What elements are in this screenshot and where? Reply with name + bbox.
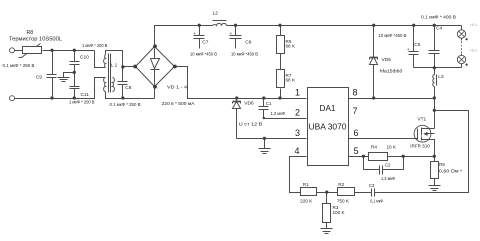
svg-text:4: 4 [294, 146, 299, 156]
svg-text:10 мкФ *450 В: 10 мкФ *450 В [231, 52, 258, 57]
svg-text:IRFR 310: IRFR 310 [410, 144, 430, 149]
svg-text:C7: C7 [202, 40, 208, 46]
svg-text:C11: C11 [81, 92, 90, 98]
svg-text:2: 2 [295, 107, 300, 117]
svg-text:8: 8 [353, 87, 358, 97]
svg-text:C4: C4 [436, 26, 442, 32]
svg-text:U ст 12 В: U ст 12 В [239, 121, 263, 126]
svg-text:220 в * 500 мА: 220 в * 500 мА [162, 101, 196, 106]
svg-text:+: + [407, 48, 410, 53]
svg-text:L3: L3 [438, 74, 444, 80]
svg-text:C1: C1 [266, 101, 272, 106]
svg-text:10 мкФ *450 В: 10 мкФ *450 В [190, 52, 217, 57]
svg-text:C8: C8 [125, 85, 131, 91]
svg-text:VD6: VD6 [244, 101, 254, 107]
svg-text:0,1 мкФ: 0,1 мкФ [370, 198, 383, 203]
svg-text:C9: C9 [36, 74, 42, 80]
svg-text:0,60 Ом *: 0,60 Ом * [439, 169, 462, 174]
svg-text:10 мкФ *450 В: 10 мкФ *450 В [378, 33, 406, 38]
svg-text:R1: R1 [303, 182, 309, 187]
svg-text:VT1: VT1 [417, 117, 426, 123]
svg-text:0.1 мкФ * 250 В: 0.1 мкФ * 250 В [3, 63, 35, 68]
svg-text:3: 3 [295, 128, 300, 138]
svg-text:VD5: VD5 [382, 57, 392, 63]
svg-text:10 K: 10 K [387, 144, 397, 149]
svg-text:HL1: HL1 [470, 23, 477, 27]
svg-text:68 K: 68 K [286, 44, 296, 49]
svg-text:Термистор 10S500L: Термистор 10S500L [9, 37, 62, 43]
svg-text:1,3 мкФ: 1,3 мкФ [381, 176, 395, 181]
svg-text:C10: C10 [80, 55, 89, 61]
svg-text:hfa15tb60: hfa15tb60 [380, 69, 403, 74]
svg-text:C5: C5 [414, 42, 420, 48]
svg-text:5: 5 [354, 146, 359, 156]
svg-text:R5: R5 [439, 162, 445, 167]
svg-text:+: + [230, 32, 233, 37]
svg-text:+: + [193, 32, 196, 37]
svg-text:1: 1 [295, 87, 300, 97]
svg-text:1 мкФ * 200 В: 1 мкФ * 200 В [69, 99, 95, 104]
svg-text:100 K: 100 K [333, 210, 346, 215]
svg-text:0.1 мкФ * 400 В: 0.1 мкФ * 400 В [421, 14, 456, 19]
svg-text:R2: R2 [338, 182, 344, 187]
svg-text:R8: R8 [27, 30, 34, 36]
svg-text:HLn: HLn [470, 49, 477, 53]
svg-text:750 K: 750 K [337, 199, 350, 204]
svg-text:L 1: L 1 [111, 62, 118, 68]
svg-text:1,3 мкФ: 1,3 мкФ [271, 111, 286, 116]
svg-text:VD 1 - 4: VD 1 - 4 [167, 84, 187, 90]
svg-text:L2: L2 [213, 11, 219, 17]
svg-text:C8: C8 [245, 40, 251, 46]
svg-text:6: 6 [354, 128, 359, 138]
svg-text:68 K: 68 K [286, 78, 296, 83]
svg-text:C3: C3 [369, 183, 375, 188]
svg-text:7: 7 [353, 106, 358, 116]
svg-text:DA1: DA1 [320, 104, 336, 113]
svg-text:1 мкФ * 200 В: 1 мкФ * 200 В [82, 43, 108, 48]
svg-text:220 K: 220 K [300, 199, 313, 204]
svg-text:UBA 3070: UBA 3070 [309, 123, 347, 132]
svg-text:C2: C2 [385, 163, 391, 168]
svg-text:0.1 мкФ * 250 В: 0.1 мкФ * 250 В [110, 102, 141, 107]
svg-text:R4: R4 [371, 144, 377, 149]
